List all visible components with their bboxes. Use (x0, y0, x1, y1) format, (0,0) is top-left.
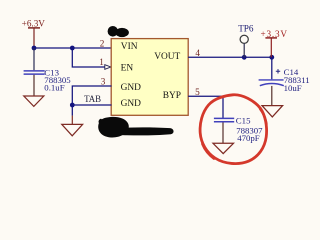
svg-text:1: 1 (99, 57, 104, 67)
wire GND pin3 (72, 86, 111, 105)
test point TP6 (238, 23, 254, 57)
ground under C13 (24, 96, 44, 106)
red pen circle annotation (200, 95, 267, 164)
svg-text:VIN: VIN (121, 42, 138, 52)
wire VIN net (34, 47, 112, 49)
svg-text:10uF: 10uF (284, 83, 302, 93)
regulator IC body (111, 39, 188, 116)
node junction at C13 (32, 46, 37, 51)
svg-text:TP6: TP6 (238, 23, 254, 33)
redaction blob over part number (108, 26, 129, 37)
power +6.3V (22, 18, 46, 48)
node junction at TP6 (242, 55, 247, 60)
capacitor C15 (214, 115, 263, 143)
capacitor C14 polarized (259, 57, 310, 105)
svg-text:GND: GND (121, 99, 142, 109)
svg-text:+6.3V: +6.3V (22, 18, 46, 28)
svg-text:3: 3 (101, 76, 106, 86)
wire BYP net (188, 96, 223, 118)
svg-text:BYP: BYP (163, 91, 181, 101)
power +3.3V (261, 29, 288, 57)
node junction at +3.3V / C14 (269, 55, 274, 60)
ground under C15 (213, 143, 234, 153)
svg-text:2: 2 (100, 39, 105, 49)
svg-text:0.1uF: 0.1uF (44, 83, 64, 93)
svg-text:470pF: 470pF (237, 133, 260, 143)
redaction marker stroke bottom (98, 117, 129, 138)
pin EN input arrow (105, 65, 111, 70)
svg-text:EN: EN (121, 64, 134, 74)
ground under TAB (62, 116, 83, 136)
svg-text:GND: GND (121, 83, 142, 93)
svg-text:TAB: TAB (84, 94, 101, 104)
node junction TAB/GND (70, 103, 75, 108)
svg-text:4: 4 (195, 48, 200, 58)
node junction EN branch (70, 46, 75, 51)
svg-text:VOUT: VOUT (154, 52, 180, 62)
svg-text:C15: C15 (236, 115, 251, 125)
wire TAB (72, 104, 111, 106)
wire EN branch (72, 48, 105, 67)
wire VOUT net (188, 56, 272, 58)
svg-text:5: 5 (195, 87, 200, 97)
capacitor C13 (24, 48, 72, 96)
wire to ground (71, 105, 73, 116)
ground under C14 (262, 106, 283, 117)
